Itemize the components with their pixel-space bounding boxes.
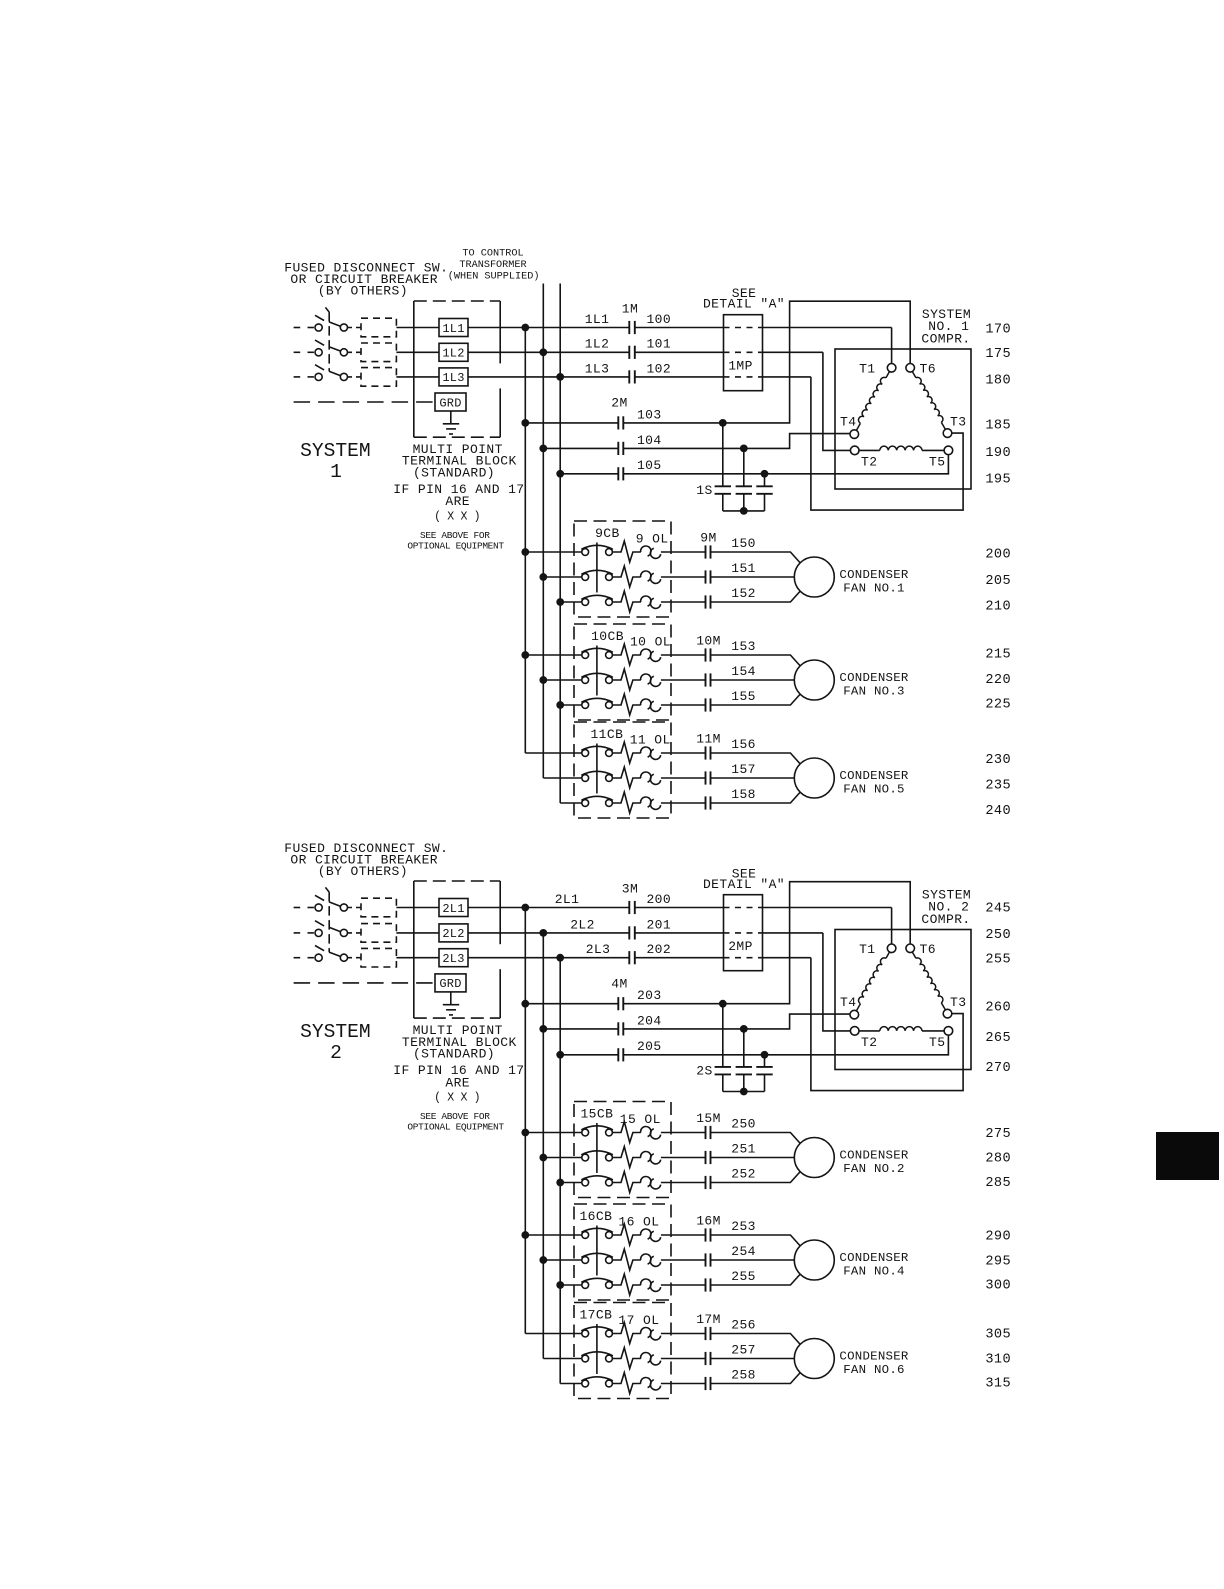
terminal T2 (system 2)	[850, 1027, 859, 1036]
compressor enclosure (system 2)	[835, 930, 971, 1070]
contact 2M pole 3	[617, 467, 619, 480]
label FAN NO.1	[839, 568, 908, 596]
15CB pole 2 (breaker contact + overload heater)	[543, 1147, 705, 1168]
circuit breaker 17CB enclosure	[574, 1303, 671, 1399]
fuse block 1 (system 2)	[361, 898, 396, 917]
svg-text:16CB: 16CB	[579, 1209, 612, 1224]
17CB pole 3 (breaker contact + overload heater)	[560, 1373, 705, 1394]
motor FAN NO.5	[794, 758, 834, 798]
9CB pole 1 (breaker contact + overload heater)	[525, 541, 705, 562]
17CB mechanical tie	[596, 1324, 598, 1374]
contact 11M pole 1	[705, 746, 707, 759]
contact 1M pole 1	[628, 321, 630, 334]
svg-text:T1: T1	[859, 361, 875, 376]
svg-text:GRD: GRD	[439, 396, 461, 410]
9CB mechanical tie	[596, 543, 598, 593]
svg-text:155: 155	[731, 689, 756, 704]
contact 4M pole 2	[617, 1022, 619, 1035]
disconnect switch handle and tie (system 2)	[325, 887, 329, 952]
svg-text:2M: 2M	[611, 396, 627, 411]
17CB pole 1 (breaker contact + overload heater)	[525, 1323, 705, 1344]
disconnect switch pole 2 (system 1)	[294, 340, 361, 356]
label system title (system 1)	[921, 307, 971, 347]
wire 152	[711, 591, 801, 602]
svg-text:300: 300	[985, 1279, 1011, 1294]
junction dot	[556, 1051, 564, 1059]
junction dot	[521, 651, 529, 659]
svg-text:150: 150	[731, 536, 756, 551]
svg-text:2L1: 2L1	[555, 892, 580, 907]
contact 3M pole 1	[628, 901, 630, 914]
contact 10M pole 2	[705, 673, 707, 686]
svg-text:2S: 2S	[696, 1064, 712, 1079]
note multi point terminal block (system 1)	[402, 442, 517, 481]
svg-text:103: 103	[637, 407, 662, 422]
svg-text:ARE: ARE	[445, 494, 470, 509]
terminal 2L3 (system 2)	[439, 949, 468, 967]
wire 252	[711, 1172, 801, 1183]
svg-text:9 OL: 9 OL	[636, 531, 669, 546]
junction dot	[539, 573, 547, 581]
svg-text:COMPR.: COMPR.	[921, 912, 970, 927]
svg-text:210: 210	[985, 599, 1011, 614]
page tab marker	[1156, 1132, 1219, 1180]
note to control transformer	[448, 249, 540, 283]
wire 200 (system 2)	[635, 907, 724, 909]
note see detail A (system 1)	[703, 286, 785, 312]
svg-text:157: 157	[731, 762, 756, 777]
svg-text:T6: T6	[920, 942, 936, 957]
contact 17M pole 3	[705, 1377, 707, 1390]
svg-text:( X X ): ( X X )	[434, 510, 480, 523]
vertical wire from 2L2 (system 2)	[542, 933, 544, 1359]
15CB pole 1 (breaker contact + overload heater)	[525, 1122, 705, 1143]
terminal GRD (system 1)	[435, 393, 466, 411]
svg-text:1: 1	[330, 461, 342, 483]
svg-text:220: 220	[985, 673, 1011, 688]
svg-text:15 OL: 15 OL	[620, 1112, 661, 1127]
capacitor bus (2S)	[723, 1091, 765, 1093]
junction dot	[539, 1025, 547, 1033]
wire to T3 (system 1)	[811, 377, 963, 510]
disconnect switch handle and tie (system 1)	[325, 307, 329, 371]
11CB pole 1 (breaker contact + overload heater)	[525, 742, 705, 763]
svg-text:1L3: 1L3	[442, 371, 464, 385]
svg-text:CONDENSER: CONDENSER	[839, 769, 908, 783]
circuit breaker 10CB enclosure	[574, 624, 671, 720]
11CB pole 3 (breaker contact + overload heater)	[560, 792, 705, 813]
svg-text:10 OL: 10 OL	[630, 634, 671, 649]
terminal T2 (system 1)	[850, 446, 859, 455]
motor protector 2MP (system 2)	[724, 895, 763, 971]
disconnect switch pole 1 (system 1)	[294, 315, 361, 331]
contact 4M pole 1	[617, 997, 619, 1010]
junction dot on wire at x=743.8	[740, 445, 748, 453]
wire 102 (system 1)	[635, 376, 724, 378]
wire 156	[711, 753, 801, 764]
capacitor 1S element 3	[756, 474, 772, 511]
svg-text:FAN NO.5: FAN NO.5	[843, 782, 905, 796]
svg-text:FAN NO.2: FAN NO.2	[843, 1162, 905, 1176]
wire to T2 (system 2)	[823, 933, 851, 1031]
svg-text:205: 205	[985, 574, 1011, 589]
junction dot on wire at x=743.8	[740, 1025, 748, 1033]
wire fuse to terminal row 2 (system 2)	[396, 932, 439, 934]
10CB pole 1 (breaker contact + overload heater)	[525, 644, 705, 665]
vertical wire from 1L3 (system 1)	[559, 284, 561, 804]
svg-text:1L1: 1L1	[442, 322, 464, 336]
svg-text:T5: T5	[929, 1035, 945, 1050]
svg-text:275: 275	[985, 1127, 1011, 1142]
wire 201 (system 2)	[635, 932, 724, 934]
note if pin 16 and 17 (system 2)	[393, 1063, 524, 1105]
svg-text:CONDENSER: CONDENSER	[839, 568, 908, 582]
junction dot	[556, 1179, 564, 1187]
svg-text:260: 260	[985, 1001, 1011, 1016]
svg-text:152: 152	[731, 586, 756, 601]
svg-text:295: 295	[985, 1255, 1011, 1270]
contact 11M pole 2	[705, 771, 707, 784]
svg-text:205: 205	[637, 1039, 662, 1054]
wire 254	[711, 1259, 795, 1261]
9CB pole 2 (breaker contact + overload heater)	[543, 566, 705, 587]
contact 17M pole 2	[705, 1352, 707, 1365]
svg-text:OPTIONAL EQUIPMENT: OPTIONAL EQUIPMENT	[407, 1122, 504, 1133]
junction dot on capacitor bus (2S)	[740, 1088, 748, 1096]
contact 2M pole 1	[617, 416, 619, 429]
fuse block 2 (system 1)	[361, 343, 396, 362]
terminal T4 (system 1)	[850, 430, 859, 439]
contact 10M pole 1	[705, 648, 707, 661]
terminal 2L2 (system 2)	[439, 924, 468, 942]
wire 105 to T5 (system 1)	[623, 455, 948, 474]
wire 105 (system 1)	[560, 473, 618, 475]
contact 1M pole 2	[628, 346, 630, 359]
svg-text:T5: T5	[929, 455, 945, 470]
junction dot	[539, 1154, 547, 1162]
label FAN NO.4	[839, 1251, 908, 1279]
label SYSTEM 1	[300, 440, 371, 483]
svg-text:1S: 1S	[696, 483, 712, 498]
wire fuse to terminal row 2 (system 1)	[396, 351, 439, 353]
line numbers 170-240	[985, 322, 1011, 819]
svg-text:( X X ): ( X X )	[434, 1092, 480, 1105]
motor FAN NO.3	[794, 660, 834, 700]
svg-text:156: 156	[731, 737, 756, 752]
wire 1L3 (system 1)	[468, 376, 629, 378]
junction dot on capacitor bus (1S)	[740, 507, 748, 515]
svg-text:190: 190	[985, 446, 1011, 461]
wire 103 to T6 (system 1)	[623, 301, 910, 423]
contact 16M pole 1	[705, 1228, 707, 1241]
wire 202 (system 2)	[635, 957, 724, 959]
16CB pole 2 (breaker contact + overload heater)	[543, 1249, 705, 1270]
multi point terminal block outline (system 1)	[414, 301, 500, 437]
terminal 1L3 (system 1)	[439, 368, 468, 386]
svg-text:252: 252	[731, 1167, 756, 1182]
svg-text:T1: T1	[859, 942, 875, 957]
wire 100 (system 1)	[635, 327, 724, 329]
svg-text:T3: T3	[950, 414, 966, 429]
capacitor 2S element 2	[736, 1029, 752, 1092]
svg-text:1L1: 1L1	[585, 312, 610, 327]
junction dot	[556, 373, 564, 381]
junction dot	[539, 1256, 547, 1264]
svg-text:100: 100	[646, 312, 671, 327]
svg-text:11 OL: 11 OL	[630, 732, 671, 747]
svg-text:250: 250	[985, 928, 1011, 943]
terminal 1L2 (system 1)	[439, 343, 468, 361]
svg-text:245: 245	[985, 902, 1011, 917]
svg-text:104: 104	[637, 433, 662, 448]
fuse block 3 (system 2)	[361, 948, 396, 967]
contact 1M pole 3	[628, 370, 630, 383]
junction dot	[521, 1129, 529, 1137]
junction dot	[556, 1281, 564, 1289]
16CB mechanical tie	[596, 1226, 598, 1276]
note if pin 16 and 17 (system 1)	[393, 482, 524, 524]
junction dot	[556, 598, 564, 606]
contact 15M pole 2	[705, 1151, 707, 1164]
wire fuse to terminal row 1 (system 2)	[396, 907, 439, 909]
svg-text:315: 315	[985, 1376, 1011, 1391]
svg-text:185: 185	[985, 419, 1011, 434]
wire 153	[711, 655, 801, 666]
wire 2L2 (system 2)	[468, 932, 629, 934]
line numbers 245-315	[985, 902, 1011, 1392]
ground wire (system 2)	[294, 982, 435, 984]
terminal T5 (system 1)	[944, 446, 953, 455]
junction dot	[521, 904, 529, 912]
9CB pole 3 (breaker contact + overload heater)	[560, 591, 705, 612]
note fused disconnect (system 2)	[284, 841, 448, 879]
svg-text:2L2: 2L2	[442, 927, 464, 941]
wire 256	[711, 1334, 801, 1345]
wire 205 (system 2)	[560, 1054, 618, 1056]
svg-text:17M: 17M	[696, 1312, 721, 1327]
motor FAN NO.1	[794, 557, 834, 597]
wire 1L1 (system 1)	[468, 327, 629, 329]
svg-text:SEE ABOVE FOR: SEE ABOVE FOR	[420, 530, 490, 541]
wire 255	[711, 1274, 801, 1285]
svg-text:FAN NO.6: FAN NO.6	[843, 1363, 905, 1377]
fuse block 3 (system 1)	[361, 368, 396, 387]
wire 1L2 (system 1)	[468, 351, 629, 353]
16CB pole 1 (breaker contact + overload heater)	[525, 1224, 705, 1245]
svg-text:265: 265	[985, 1031, 1011, 1046]
wire 257	[711, 1358, 795, 1360]
svg-text:204: 204	[637, 1013, 662, 1028]
terminal GRD (system 2)	[435, 974, 466, 992]
capacitor 1S element 1	[715, 423, 731, 511]
wire 204 to T4 (system 2)	[623, 1014, 850, 1029]
svg-text:250: 250	[731, 1117, 756, 1132]
wire fuse to terminal row 3 (system 2)	[396, 957, 439, 959]
multi point terminal block outline (system 2)	[414, 881, 500, 1018]
wire 203 to T6 (system 2)	[623, 882, 910, 1004]
svg-text:257: 257	[731, 1343, 756, 1358]
svg-text:4M: 4M	[611, 976, 627, 991]
svg-text:T6: T6	[920, 361, 936, 376]
svg-text:230: 230	[985, 753, 1011, 768]
svg-text:FAN NO.4: FAN NO.4	[843, 1264, 905, 1278]
wire 104 to T4 (system 1)	[623, 434, 850, 449]
svg-text:TRANSFORMER: TRANSFORMER	[459, 260, 526, 271]
svg-text:11M: 11M	[696, 732, 721, 747]
contact 9M pole 1	[705, 545, 707, 558]
svg-text:3M: 3M	[622, 881, 638, 896]
svg-text:T2: T2	[861, 455, 877, 470]
svg-text:ARE: ARE	[445, 1075, 470, 1090]
note multi point terminal block (system 2)	[402, 1023, 517, 1062]
svg-text:1MP: 1MP	[728, 358, 753, 373]
junction dot	[521, 1231, 529, 1239]
ground symbol (system 2)	[443, 992, 459, 1015]
winding T1-T4 (system 2)	[856, 952, 889, 1011]
svg-text:251: 251	[731, 1142, 756, 1157]
contact 10M pole 3	[705, 698, 707, 711]
svg-text:258: 258	[731, 1368, 756, 1383]
wire 101 (system 1)	[635, 351, 724, 353]
svg-text:225: 225	[985, 698, 1011, 713]
svg-text:310: 310	[985, 1352, 1011, 1367]
compressor enclosure (system 1)	[835, 349, 971, 489]
10CB pole 2 (breaker contact + overload heater)	[543, 669, 705, 690]
15CB mechanical tie	[596, 1123, 598, 1173]
label system title (system 2)	[921, 888, 971, 928]
15CB pole 3 (breaker contact + overload heater)	[560, 1172, 705, 1193]
winding T1-T4 (system 1)	[856, 372, 889, 431]
svg-text:200: 200	[985, 548, 1011, 563]
10CB pole 3 (breaker contact + overload heater)	[560, 694, 705, 715]
terminal 1L1 (system 1)	[439, 319, 468, 337]
svg-text:215: 215	[985, 647, 1011, 662]
svg-text:105: 105	[637, 458, 662, 473]
svg-text:240: 240	[985, 804, 1011, 819]
vertical wire from 2L3 (system 2)	[559, 958, 561, 1384]
label FAN NO.6	[839, 1349, 908, 1377]
wire 154	[711, 679, 795, 681]
winding T6-T3 (system 1)	[912, 372, 945, 430]
svg-text:201: 201	[646, 917, 671, 932]
junction dot	[539, 445, 547, 453]
svg-text:T2: T2	[861, 1035, 877, 1050]
svg-text:TO CONTROL: TO CONTROL	[462, 249, 523, 260]
svg-text:195: 195	[985, 473, 1011, 488]
11CB mechanical tie	[596, 744, 598, 794]
label FAN NO.5	[839, 769, 908, 797]
junction dot	[539, 929, 547, 937]
contact 11M pole 3	[705, 796, 707, 809]
svg-text:T4: T4	[840, 995, 856, 1010]
junction dot on wire at x=764.5	[761, 470, 769, 478]
disconnect switch pole 1 (system 2)	[294, 895, 361, 911]
wire to T3 (system 2)	[811, 958, 963, 1091]
svg-text:11CB: 11CB	[590, 727, 623, 742]
svg-text:17CB: 17CB	[579, 1307, 612, 1322]
motor FAN NO.6	[794, 1339, 834, 1379]
svg-text:9CB: 9CB	[595, 526, 620, 541]
svg-text:SYSTEM: SYSTEM	[300, 440, 371, 462]
svg-text:255: 255	[985, 952, 1011, 967]
wire 2L3 (system 2)	[468, 957, 629, 959]
disconnect switch pole 3 (system 2)	[294, 946, 361, 962]
junction dot	[521, 324, 529, 332]
contact 15M pole 3	[705, 1176, 707, 1189]
junction dot	[539, 676, 547, 684]
wire 253	[711, 1235, 801, 1246]
junction dot on wire at x=764.5	[761, 1051, 769, 1059]
circuit breaker 11CB enclosure	[574, 722, 671, 818]
terminal T3 (system 1)	[943, 429, 952, 438]
svg-text:270: 270	[985, 1061, 1011, 1076]
svg-text:290: 290	[985, 1230, 1011, 1245]
16CB pole 3 (breaker contact + overload heater)	[560, 1274, 705, 1295]
wire 251	[711, 1157, 795, 1159]
svg-text:16M: 16M	[696, 1214, 721, 1229]
contact 9M pole 3	[705, 595, 707, 608]
label FAN NO.2	[839, 1148, 908, 1176]
wire 150	[711, 552, 801, 563]
note see detail A (system 2)	[703, 866, 785, 892]
svg-text:CONDENSER: CONDENSER	[839, 671, 908, 685]
svg-text:202: 202	[646, 942, 671, 957]
disconnect switch pole 3 (system 1)	[294, 365, 361, 381]
wire 2L1 (system 2)	[468, 907, 629, 909]
wire 204 (system 2)	[543, 1028, 618, 1030]
svg-text:235: 235	[985, 779, 1011, 794]
terminal 2L1 (system 2)	[439, 899, 468, 917]
svg-text:305: 305	[985, 1327, 1011, 1342]
svg-text:154: 154	[731, 664, 756, 679]
wire 258	[711, 1373, 801, 1384]
svg-text:T3: T3	[950, 995, 966, 1010]
junction dot on wire at x=722.8	[719, 1000, 727, 1008]
terminal T6 (system 1)	[906, 364, 915, 373]
winding T6-T3 (system 2)	[912, 952, 945, 1010]
fuse block 1 (system 1)	[361, 318, 396, 337]
junction dot on wire at x=722.8	[719, 419, 727, 427]
11CB pole 2 (breaker contact + overload heater)	[543, 767, 705, 788]
wire 157	[711, 777, 795, 779]
contact 3M pole 2	[628, 926, 630, 939]
svg-text:2: 2	[330, 1042, 342, 1064]
ground symbol (system 1)	[443, 411, 459, 434]
disconnect switch pole 2 (system 2)	[294, 921, 361, 937]
winding T2-T5 (system 1)	[859, 446, 944, 450]
note see above for optional equipment (system 2)	[407, 1111, 504, 1133]
wire to T1 (system 2)	[891, 908, 893, 945]
terminal T6 (system 2)	[906, 944, 915, 953]
svg-text:2L3: 2L3	[442, 952, 464, 966]
svg-text:(BY OTHERS): (BY OTHERS)	[318, 864, 408, 879]
motor protector 1MP (system 1)	[724, 315, 763, 391]
svg-text:2MP: 2MP	[728, 939, 753, 954]
junction dot	[521, 1000, 529, 1008]
junction dot	[556, 470, 564, 478]
svg-text:CONDENSER: CONDENSER	[839, 1251, 908, 1265]
contact 9M pole 2	[705, 570, 707, 583]
wire fuse to terminal row 1 (system 1)	[396, 327, 439, 329]
contact 16M pole 2	[705, 1253, 707, 1266]
motor FAN NO.4	[794, 1240, 834, 1280]
junction dot	[521, 548, 529, 556]
svg-text:255: 255	[731, 1269, 756, 1284]
svg-text:GRD: GRD	[439, 977, 461, 991]
terminal T4 (system 2)	[850, 1010, 859, 1019]
svg-text:SEE ABOVE FOR: SEE ABOVE FOR	[420, 1111, 490, 1122]
svg-text:2L1: 2L1	[442, 902, 464, 916]
